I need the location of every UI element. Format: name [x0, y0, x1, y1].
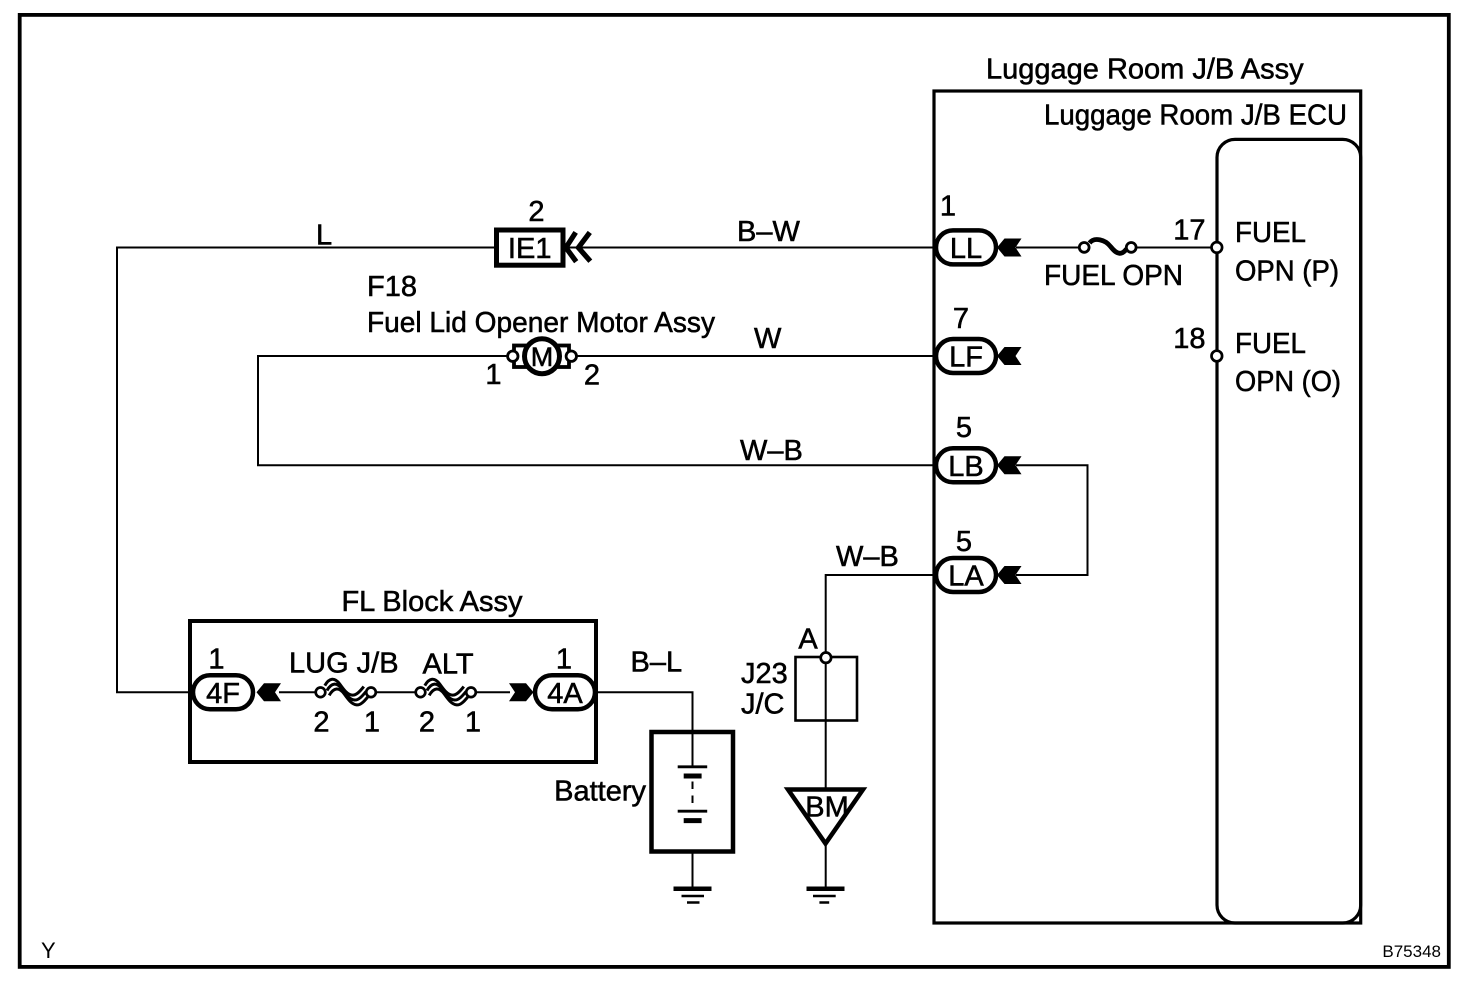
svg-text:LB: LB	[948, 451, 983, 483]
wire B-L 4A to battery	[597, 692, 693, 766]
svg-text:Luggage Room J/B Assy: Luggage Room J/B Assy	[986, 54, 1304, 86]
svg-text:LL: LL	[950, 233, 982, 265]
svg-text:2: 2	[419, 707, 435, 739]
wire LB to LA loop	[1016, 465, 1088, 575]
svg-text:M: M	[531, 342, 554, 372]
wire fuse to pin 17	[1137, 247, 1217, 249]
connector LA	[936, 558, 996, 593]
wire LUG J/B to ALT	[376, 691, 415, 693]
fusible link ALT	[416, 679, 476, 705]
svg-text:W–B: W–B	[836, 541, 899, 573]
svg-text:4A: 4A	[547, 678, 583, 710]
chevron arrows at IE1	[566, 232, 590, 261]
svg-text:Battery: Battery	[554, 776, 646, 808]
svg-text:1: 1	[485, 359, 501, 391]
svg-text:Y: Y	[41, 938, 56, 963]
svg-text:1: 1	[208, 644, 224, 676]
svg-text:2: 2	[584, 360, 600, 392]
connector IE1	[497, 230, 564, 265]
pin 17 circle	[1212, 242, 1223, 253]
svg-text:W–B: W–B	[740, 435, 803, 467]
wire ALT to 4A arrow	[476, 691, 510, 693]
wire LL arrow to fuse	[1016, 247, 1079, 249]
wire B-W IE1 to LL	[566, 247, 940, 249]
svg-text:18: 18	[1173, 323, 1205, 355]
node A circle	[821, 653, 831, 663]
connector LB	[936, 448, 996, 483]
svg-text:1: 1	[465, 707, 481, 739]
wire W motor to LF	[576, 355, 940, 357]
wire L from IE1 down-left trunk to 4F	[117, 248, 494, 693]
FL Block Assy box	[190, 621, 596, 762]
connector LL	[936, 230, 996, 265]
svg-text:7: 7	[953, 303, 969, 335]
connector LF	[936, 339, 996, 374]
svg-text:OPN (P): OPN (P)	[1235, 256, 1339, 288]
svg-text:BM: BM	[805, 792, 849, 824]
fusible link LUG J/B	[316, 679, 376, 705]
svg-text:1: 1	[556, 644, 572, 676]
wire LA to node A	[826, 575, 940, 655]
connector 4A	[535, 675, 595, 710]
svg-text:2: 2	[313, 707, 329, 739]
arrow at LF	[997, 347, 1022, 365]
arrow at LB	[997, 456, 1022, 474]
svg-text:ALT: ALT	[423, 649, 474, 681]
svg-text:B–L: B–L	[631, 647, 683, 679]
motor M F18	[508, 339, 577, 374]
wire 4F arrow to LUG J/B	[279, 691, 315, 693]
svg-text:B–W: B–W	[737, 216, 800, 248]
svg-text:FL Block Assy: FL Block Assy	[341, 586, 523, 618]
svg-text:FUEL OPN: FUEL OPN	[1044, 260, 1183, 292]
ground (battery)	[674, 889, 712, 903]
svg-text:Luggage Room J/B ECU: Luggage Room J/B ECU	[1044, 100, 1347, 132]
svg-text:J/C: J/C	[741, 689, 785, 721]
svg-text:LF: LF	[949, 342, 983, 374]
arrow at LA	[997, 566, 1022, 584]
connector 4F	[193, 675, 253, 710]
arrow at 4F	[257, 683, 282, 701]
svg-text:1: 1	[940, 191, 956, 223]
battery	[652, 732, 734, 852]
arrow at LL	[997, 239, 1022, 257]
junction connector J23 J/C	[796, 657, 858, 721]
wire battery to ground	[692, 821, 694, 887]
pin 18 circle	[1212, 351, 1223, 362]
fuse FUEL OPN	[1079, 240, 1136, 254]
svg-text:FUEL: FUEL	[1235, 217, 1306, 249]
svg-text:Fuel Lid Opener Motor Assy: Fuel Lid Opener Motor Assy	[367, 307, 715, 339]
svg-text:F18: F18	[367, 271, 417, 303]
svg-text:L: L	[316, 220, 332, 252]
svg-text:OPN (O): OPN (O)	[1235, 366, 1341, 398]
svg-text:4F: 4F	[206, 678, 240, 710]
Luggage Room J/B ECU box	[1217, 139, 1361, 923]
svg-text:FUEL: FUEL	[1235, 328, 1306, 360]
svg-text:IE1: IE1	[508, 233, 552, 265]
wire BM to ground	[825, 845, 827, 888]
svg-text:5: 5	[956, 412, 972, 444]
svg-text:W: W	[754, 323, 782, 355]
ground shield BM	[788, 790, 863, 844]
svg-text:LUG J/B: LUG J/B	[289, 648, 399, 680]
svg-text:5: 5	[956, 526, 972, 558]
svg-text:17: 17	[1173, 215, 1205, 247]
svg-text:LA: LA	[948, 561, 984, 593]
svg-text:A: A	[798, 624, 818, 656]
svg-text:2: 2	[528, 196, 544, 228]
ground (BM)	[807, 889, 845, 903]
svg-text:B75348: B75348	[1382, 942, 1441, 961]
svg-text:1: 1	[364, 707, 380, 739]
wire motor pin1 loop to LB	[258, 356, 940, 465]
svg-text:J23: J23	[741, 658, 788, 690]
Luggage Room J/B Assy box	[934, 91, 1361, 923]
wire node A through J/C to BM	[825, 655, 827, 790]
arrow at 4A	[509, 683, 534, 701]
